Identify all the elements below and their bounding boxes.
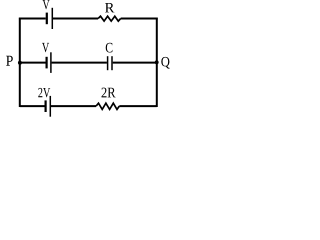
node Q (155, 60, 159, 64)
label V (top battery) (43, 0, 50, 9)
wire middle branch left segment (20, 62, 46, 64)
resistor R (98, 16, 121, 21)
wire bottom branch left segment (20, 105, 45, 107)
wire left rail (19, 18, 21, 107)
wire top branch middle segment (53, 18, 98, 20)
label 2R (102, 88, 116, 98)
node P (18, 61, 22, 65)
label C (106, 43, 113, 53)
battery 2V (bottom) (46, 96, 51, 117)
battery V (top) (47, 8, 53, 29)
wire top branch left segment (19, 18, 46, 20)
label R (105, 3, 114, 12)
capacitor C (108, 56, 112, 70)
label P (6, 56, 13, 66)
battery V (middle) (47, 52, 51, 73)
wire bottom branch right segment (119, 105, 157, 107)
label Q (161, 57, 169, 69)
resistor 2R (96, 103, 119, 109)
wire bottom branch middle segment (51, 105, 96, 107)
label 2V (bottom battery) (38, 88, 50, 98)
wire middle branch centre segment (52, 62, 107, 64)
wire top branch right segment (121, 18, 158, 20)
wire right rail (156, 18, 158, 107)
label V (middle battery) (42, 43, 49, 52)
wire middle branch right segment (113, 62, 157, 64)
